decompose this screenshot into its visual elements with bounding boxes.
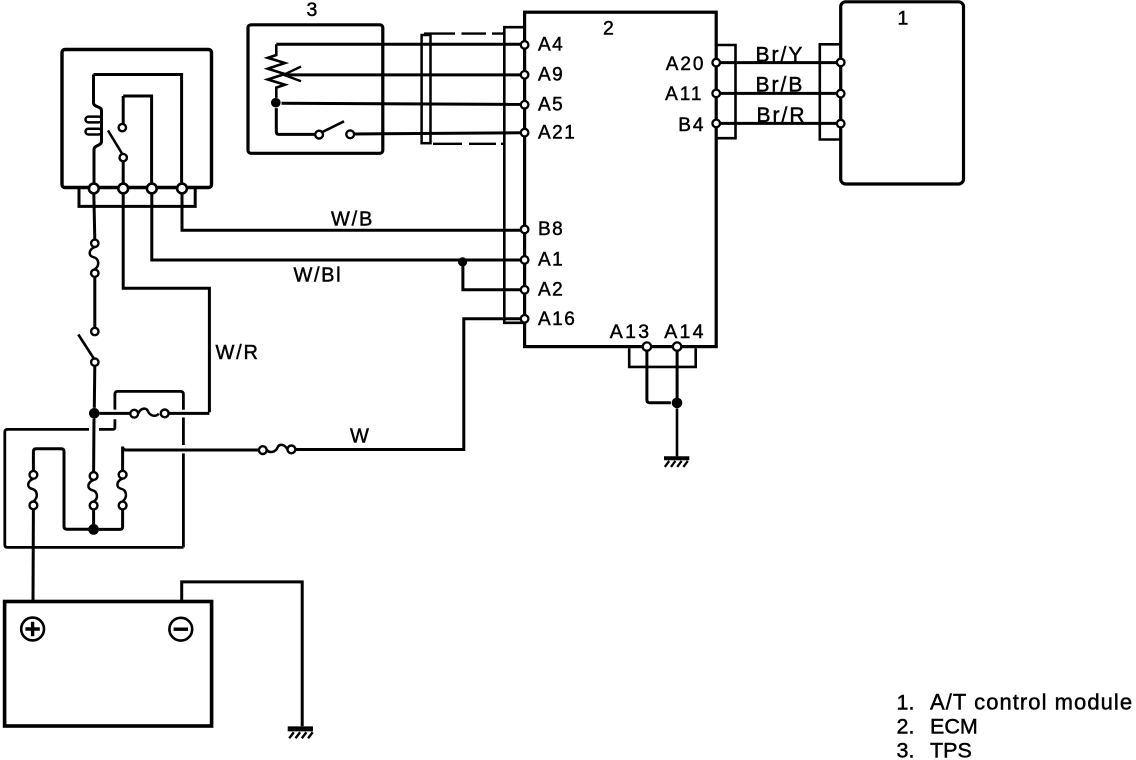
relay switch contact (upper): [119, 124, 126, 131]
A/T control module box (1): [841, 2, 964, 184]
relay connector shroud: [79, 189, 195, 206]
relay terminal 4: [177, 184, 187, 194]
wire W/R: relay terminal2 to fuse line: [123, 193, 209, 412]
wire Br/Y: ECM A20 to module: [720, 61, 837, 64]
svg-text:A/T control module: A/T control module: [930, 690, 1133, 715]
ignition switch: [78, 328, 98, 366]
fuse (on battery feed wire): [90, 240, 99, 277]
relay internal wire: coil loop t1-t4: [94, 75, 182, 185]
ECM box (2): [525, 12, 717, 346]
wire: fuse to W/R vertical: [169, 412, 210, 415]
wire: switch down to junction: [93, 366, 97, 408]
wire: battery - to ground: [182, 582, 303, 726]
fuse (dome light fuse): [130, 409, 168, 418]
junction box (bottom left): [5, 428, 184, 548]
ECM bottom connector strip: [629, 348, 696, 367]
wire: junction down to fuse box coil 2: [92, 419, 95, 473]
wire Br/B: ECM A11 to module: [720, 92, 837, 95]
junction node (in junction box): [88, 524, 99, 535]
svg-text:A16: A16: [538, 309, 576, 330]
battery: [5, 602, 212, 727]
wire: coil2 bottom to junction: [92, 509, 95, 524]
svg-text:A1: A1: [538, 250, 564, 271]
svg-text:TPS: TPS: [930, 739, 972, 760]
wire: idle switch to ECM A21: [354, 133, 521, 134]
wire W: ECM A16 to fuse box: [295, 319, 521, 450]
relay internal wire: switch branch t2-t3: [123, 96, 151, 184]
pin A2: [521, 286, 529, 294]
wire: junction to ground: [676, 409, 679, 457]
wire: coil1 top loop to junction: [33, 449, 88, 530]
idle switch: [315, 121, 354, 138]
wire: terminal1 down to fuse: [94, 193, 95, 239]
svg-text:2.: 2.: [897, 715, 915, 739]
svg-text:W/Bl: W/Bl: [294, 265, 343, 287]
wire: A14 to ground junction: [676, 351, 679, 403]
relay switch contact (lower): [120, 154, 127, 161]
wire: junction to coil3 bottom: [99, 509, 123, 529]
svg-text:A4: A4: [538, 35, 564, 56]
dashed connector outline (top): [424, 32, 504, 34]
relay coil: [86, 117, 102, 135]
svg-text:W: W: [350, 426, 369, 448]
pin A1: [521, 256, 529, 264]
svg-text:W/B: W/B: [331, 209, 374, 231]
svg-text:A13: A13: [610, 321, 652, 343]
svg-text:1.: 1.: [897, 691, 915, 715]
ECM left connector strip: [504, 27, 524, 323]
pin A13: [643, 342, 651, 350]
module pin (Br/Y): [837, 59, 845, 67]
svg-text:B4: B4: [678, 115, 705, 136]
relay switch blade: [108, 131, 122, 155]
wire: TPS top to ECM A4: [276, 43, 521, 46]
coil 2 (in junction box): [88, 472, 97, 509]
dashed connector outline (bottom): [433, 143, 504, 145]
wire: wiper to ECM A9: [284, 73, 521, 76]
pin B4: [712, 120, 720, 128]
svg-text:W/R: W/R: [216, 342, 260, 364]
svg-text:3: 3: [307, 0, 318, 21]
fuse (on W wire): [259, 445, 295, 454]
pin A11: [712, 90, 720, 98]
fuse line from junction (horizontal): [100, 412, 131, 415]
wire: coil1 bottom down to battery +: [32, 509, 35, 601]
battery + terminal: [21, 618, 44, 641]
svg-text:Br/R: Br/R: [757, 104, 807, 127]
junction node on W/Bl wire: [458, 257, 467, 266]
svg-text:A2: A2: [538, 280, 564, 301]
svg-text:ECM: ECM: [930, 715, 978, 739]
module connector strip: [820, 44, 841, 139]
wire: A13 to ground junction: [647, 351, 671, 403]
svg-text:A14: A14: [664, 321, 706, 343]
pin A21: [521, 129, 529, 137]
junction node (battery feed): [89, 408, 100, 419]
wire W continues to coil3 of fuse box: [123, 447, 259, 471]
junction node (ECM ground): [672, 398, 683, 409]
ground (battery): [288, 729, 313, 738]
wire W/Bl: relay terminal3 to ECM A1: [152, 193, 521, 260]
wire Br/R: ECM B4 to module: [720, 122, 837, 125]
fusible link box (small, rounded): [115, 391, 183, 547]
pin B8: [521, 226, 529, 234]
svg-text:B8: B8: [538, 219, 564, 240]
module pin (Br/B): [837, 90, 845, 98]
relay terminal 2: [118, 184, 128, 194]
connector (solid narrow) between TPS and ECM: [422, 35, 431, 143]
svg-text:Br/Y: Br/Y: [756, 43, 805, 66]
battery - terminal: [169, 618, 192, 641]
TPS box (3): [248, 25, 383, 154]
wire: junction to ECM A2: [463, 260, 521, 290]
ECM right connector strip: [716, 45, 735, 138]
legend: [897, 690, 1134, 760]
svg-text:A9: A9: [538, 65, 564, 86]
relay terminal 1: [89, 184, 99, 194]
svg-text:A11: A11: [665, 84, 703, 105]
pin A5: [521, 101, 529, 109]
ground (ECM): [664, 458, 689, 467]
potentiometer (TPS): [268, 44, 285, 98]
pin A16: [521, 315, 529, 323]
pin A9: [521, 71, 529, 79]
pin A20: [712, 59, 720, 67]
svg-text:2: 2: [603, 18, 614, 40]
svg-text:A20: A20: [666, 54, 706, 75]
svg-text:1: 1: [898, 7, 909, 29]
relay terminal 3: [147, 184, 157, 194]
wiper arrow: [284, 67, 301, 82]
pin A4: [521, 41, 529, 49]
pin A14: [673, 342, 681, 350]
svg-text:3.: 3.: [897, 739, 915, 760]
wire: junction down to idle switch: [276, 108, 315, 134]
coil 3 (in junction box): [117, 471, 126, 510]
relay box (top left): [62, 50, 212, 188]
junction node (TPS): [271, 98, 281, 108]
svg-text:A21: A21: [538, 122, 576, 143]
svg-text:Br/B: Br/B: [756, 74, 805, 97]
wire: fuse down to ignition switch: [93, 277, 96, 328]
module pin (Br/R): [837, 120, 845, 128]
coil 1 (in junction box): [28, 471, 37, 509]
svg-text:A5: A5: [538, 94, 564, 115]
wire W/B: relay terminal4 to ECM B8: [182, 193, 521, 230]
wire: junction to ECM A5: [282, 103, 521, 104]
